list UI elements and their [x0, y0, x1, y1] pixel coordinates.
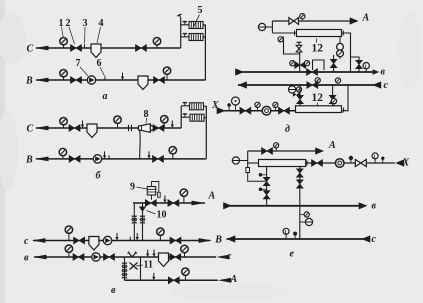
- svg-text:Х: Х: [402, 157, 410, 168]
- pump pipe: [339, 37, 341, 60]
- heat exchanger 12 lower: [296, 106, 342, 113]
- svg-text:с: с: [227, 251, 232, 262]
- valve 2: [71, 45, 82, 52]
- pipe B return: [36, 79, 205, 81]
- arrow right: [373, 69, 380, 75]
- mud trap: [87, 124, 97, 138]
- exchanger outlet up: [342, 85, 349, 111]
- arrow left right end: [362, 235, 371, 242]
- valve: [74, 237, 85, 244]
- radiator 5 upper: [189, 22, 203, 29]
- bypass pipe top: [248, 150, 321, 152]
- valve: [170, 254, 181, 261]
- gauge: [117, 123, 119, 128]
- riser: [180, 106, 182, 128]
- tick 6: [104, 76, 106, 80]
- gauge: [317, 83, 319, 86]
- valve vertical: [329, 95, 336, 103]
- valve pipe: [333, 55, 335, 72]
- svg-text:в: в: [372, 201, 377, 212]
- pipe c line: [227, 238, 370, 240]
- mixing pipe: [299, 52, 301, 72]
- pump 7: [87, 76, 95, 84]
- valve: [136, 45, 147, 52]
- flange: [294, 31, 296, 36]
- check valve 10: [139, 207, 146, 213]
- dot gauge: [382, 160, 384, 163]
- pipe C supply: [36, 47, 181, 49]
- svg-text:5: 5: [198, 5, 203, 16]
- gauge: [68, 233, 70, 241]
- svg-text:В: В: [25, 155, 33, 166]
- gauge 1: [365, 69, 367, 72]
- tap lower: [183, 114, 187, 117]
- arrow left return: [35, 78, 49, 83]
- valve with stem: [298, 42, 300, 45]
- pipe bottom line: [125, 279, 218, 281]
- arrow big left C: [238, 81, 247, 88]
- valve on mixing pipe: [295, 62, 306, 69]
- gauge: [184, 275, 186, 280]
- valve after elevator: [153, 125, 164, 132]
- valve vertical: [297, 95, 304, 103]
- svg-text:12: 12: [312, 92, 324, 104]
- impulse line: [152, 182, 159, 193]
- valves: [263, 177, 270, 185]
- union: [128, 125, 130, 131]
- valves on right drop: [139, 216, 145, 224]
- riser: [180, 18, 182, 48]
- pipe v line: [230, 205, 360, 207]
- arrow inlet: [217, 107, 226, 114]
- down arrow: [103, 151, 106, 159]
- gauge below: [300, 214, 305, 216]
- drop pipe 1: [266, 167, 268, 206]
- valve vertical: [356, 60, 363, 68]
- valve on C: [307, 82, 318, 89]
- return connectors: [204, 106, 207, 159]
- temp sensor: [300, 221, 306, 223]
- svg-text:с: с: [384, 80, 389, 91]
- riser: [247, 151, 249, 168]
- valve: [240, 107, 251, 114]
- valve: [73, 254, 84, 261]
- pump lower: [337, 50, 344, 57]
- gauge: [374, 159, 376, 163]
- svg-text:В: В: [214, 234, 222, 245]
- valve vertical: [330, 59, 337, 67]
- svg-text:в: в: [111, 285, 116, 296]
- valve: [153, 155, 164, 162]
- valve: [262, 148, 273, 155]
- svg-text:6: 6: [97, 58, 102, 69]
- arrow right B: [199, 238, 213, 243]
- temp sensor: [232, 157, 239, 164]
- gauge: [166, 74, 168, 80]
- return connectors: [203, 25, 205, 80]
- gauge: [63, 77, 65, 81]
- svg-text:В: В: [25, 76, 33, 87]
- pipe line2: [33, 240, 210, 242]
- gauge: [62, 155, 64, 159]
- gauge: [63, 125, 65, 129]
- valve stem: [151, 195, 153, 200]
- valve: [289, 18, 299, 25]
- radiator stub lower: [181, 36, 189, 38]
- bypass left pipe: [124, 257, 126, 280]
- valve: [104, 254, 115, 261]
- pump: [93, 155, 101, 163]
- pipe X line: [218, 110, 296, 112]
- heat exchanger: [259, 160, 306, 167]
- gauge: [257, 107, 259, 111]
- arrow left: [33, 255, 47, 260]
- svg-text:в: в: [24, 253, 29, 264]
- gauge: [183, 196, 185, 203]
- arrow left A: [218, 278, 232, 283]
- svg-text:1: 1: [59, 18, 64, 29]
- tap upper: [183, 103, 187, 106]
- exchanger out: [342, 33, 351, 72]
- pump upper: [337, 43, 344, 50]
- arrow big left: [223, 202, 232, 209]
- dot gauges: [262, 174, 267, 176]
- tick 3: [84, 44, 86, 48]
- svg-text:А: А: [328, 140, 336, 151]
- radiator stub upper: [181, 24, 189, 26]
- svg-text:с: с: [372, 234, 377, 245]
- down arrow: [121, 73, 124, 81]
- gauge: [156, 45, 158, 49]
- check V: [128, 252, 137, 257]
- valve: [168, 200, 179, 207]
- dot gauge: [228, 106, 230, 111]
- down arrow: [163, 196, 166, 204]
- svg-text:а: а: [103, 91, 108, 102]
- valve: [355, 160, 366, 167]
- pump: [335, 159, 344, 168]
- svg-text:2: 2: [66, 18, 71, 29]
- valve: [312, 160, 323, 167]
- pipe B line: [238, 71, 373, 73]
- pipe A top: [272, 20, 352, 22]
- svg-text:7: 7: [76, 58, 81, 69]
- gauges top right: [333, 103, 335, 107]
- valve: [69, 125, 80, 132]
- junction ticks: [129, 237, 131, 241]
- svg-text:с: с: [24, 236, 29, 247]
- riser C to exchanger: [299, 85, 301, 107]
- filter: [246, 168, 250, 173]
- svg-text:е: е: [290, 249, 295, 260]
- open box: [313, 60, 325, 70]
- big gauge: [235, 105, 237, 111]
- gauge 1: [63, 45, 65, 49]
- arrow left supply: [35, 46, 49, 51]
- heat exchanger 12 upper: [297, 30, 342, 37]
- left drop pipe: [133, 203, 135, 241]
- riser 2: [332, 85, 334, 107]
- svg-text:А: А: [362, 13, 370, 24]
- svg-text:9: 9: [130, 182, 135, 193]
- arrow big left end: [235, 68, 244, 75]
- pump: [103, 236, 111, 244]
- gauge: [274, 107, 276, 111]
- down arrow: [81, 121, 84, 129]
- arrow left X: [395, 159, 404, 166]
- arrow left supply: [35, 126, 49, 131]
- svg-text:С: С: [27, 44, 34, 55]
- svg-text:8: 8: [144, 109, 149, 120]
- dot gauge: [294, 236, 296, 240]
- down arrow: [152, 273, 155, 281]
- radiator stub upper: [181, 105, 189, 107]
- gauge: [163, 123, 165, 129]
- flange: [306, 161, 308, 166]
- drop pipe 2: [299, 167, 301, 240]
- radiator upper: [190, 103, 204, 110]
- gauge right: [304, 61, 309, 66]
- left loop: [248, 173, 267, 182]
- arrow right A: [192, 201, 206, 206]
- radiator stub lower: [181, 116, 190, 118]
- drain cluster: [289, 86, 296, 93]
- valve: [279, 107, 290, 114]
- gauge: [285, 235, 287, 240]
- mud trap: [138, 76, 148, 90]
- pipe C line: [238, 84, 380, 86]
- regulator 9 box: [147, 187, 155, 196]
- gauge between: [335, 78, 340, 83]
- left riser: [271, 21, 273, 33]
- valves: [296, 169, 303, 177]
- arrow left return: [35, 157, 49, 162]
- dot gauge: [350, 160, 352, 163]
- svg-text:д: д: [285, 124, 290, 135]
- svg-text:10: 10: [157, 210, 167, 221]
- temp regulator sensor: [258, 23, 265, 30]
- bypass valves: [121, 263, 127, 271]
- valve on B: [307, 69, 318, 76]
- control valve 9 body: [145, 200, 156, 207]
- pipe C supply: [36, 127, 181, 129]
- exchanger feed: [272, 32, 296, 34]
- water meter: [262, 106, 271, 115]
- pipe line3: [34, 256, 216, 258]
- gauge: [275, 148, 277, 152]
- mud trap: [159, 253, 169, 267]
- pipe B return: [36, 158, 206, 160]
- left drop: [284, 37, 300, 55]
- svg-text:С: С: [27, 124, 34, 135]
- valve: [154, 77, 165, 84]
- gauge: [301, 19, 303, 21]
- arrow right: [359, 202, 368, 209]
- pump: [92, 253, 100, 261]
- arrow left end: [227, 235, 236, 242]
- tap lower: [183, 34, 187, 37]
- radiator lower: [190, 114, 204, 121]
- down arrow: [147, 151, 150, 159]
- arrow right A: [315, 147, 324, 154]
- arrow left c: [216, 255, 230, 260]
- gauge: [172, 154, 174, 159]
- elevator drop pipe: [139, 130, 142, 159]
- bypass right pipe: [140, 257, 142, 280]
- outlet pipe: [306, 162, 395, 164]
- svg-text:А: А: [230, 274, 238, 285]
- down arrow: [171, 121, 174, 129]
- svg-text:4: 4: [99, 18, 104, 29]
- down ticks: [146, 250, 149, 258]
- svg-text:в: в: [381, 67, 386, 78]
- right branch: [351, 57, 360, 72]
- sensor pocket: [158, 192, 161, 197]
- svg-text:11: 11: [144, 260, 153, 271]
- air tap: [177, 14, 182, 19]
- exchanger inlet: [248, 162, 259, 164]
- arrow right A: [350, 17, 359, 24]
- gauge: [184, 252, 186, 257]
- gauge: [68, 252, 70, 257]
- flange: [342, 31, 344, 36]
- small gauge: [282, 39, 284, 41]
- svg-text:12: 12: [312, 43, 324, 55]
- valve: [69, 155, 80, 162]
- gauge: [159, 235, 161, 241]
- elevator 8: [138, 124, 150, 133]
- arrow left C right end: [372, 81, 381, 88]
- pipe A line: [133, 202, 205, 204]
- radiator 5 lower: [189, 34, 203, 41]
- arrow left: [32, 238, 46, 243]
- mud trap: [89, 237, 99, 251]
- svg-text:А: А: [208, 191, 216, 202]
- tap upper: [183, 22, 187, 25]
- mud trap 4: [91, 44, 101, 58]
- valve 11 cross: [130, 263, 138, 270]
- valve: [170, 237, 181, 244]
- valves on left drop: [131, 216, 137, 224]
- gauge left: [290, 61, 295, 66]
- valve: [168, 277, 179, 284]
- valve: [71, 77, 82, 84]
- right drop pipe: [142, 203, 144, 241]
